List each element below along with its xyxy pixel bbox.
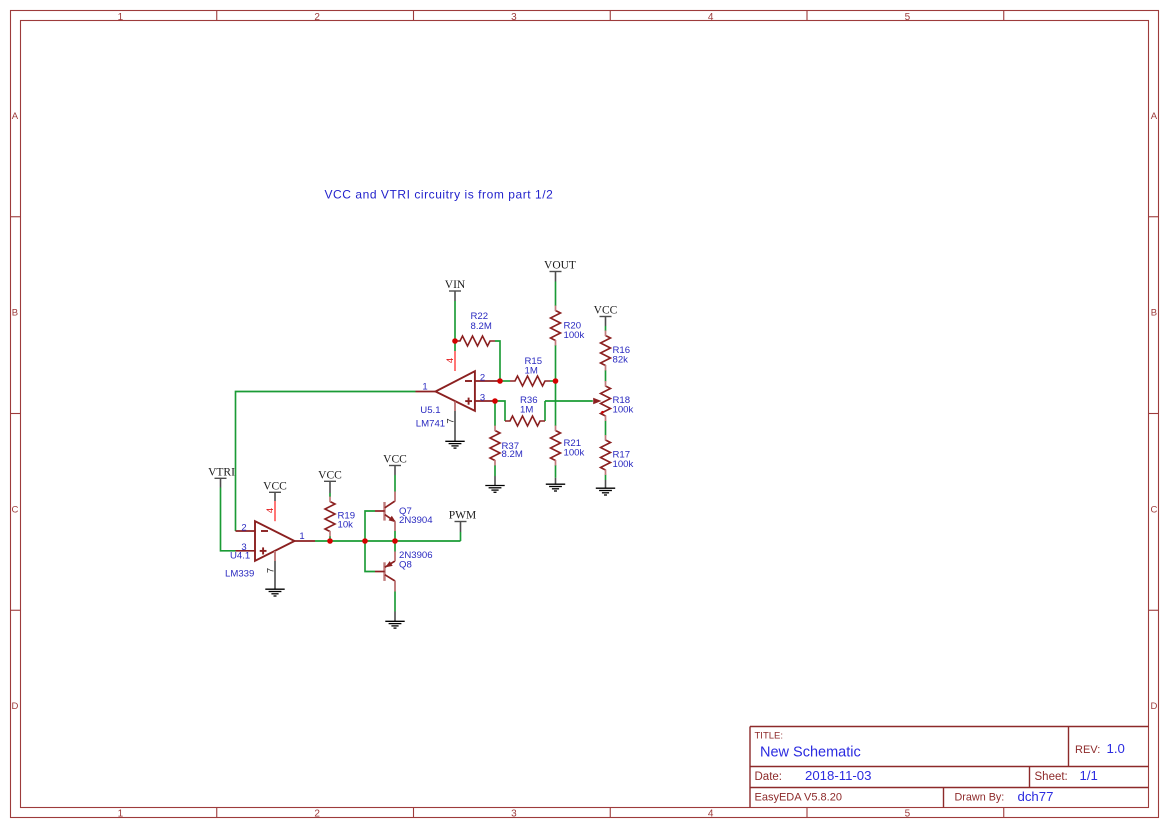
wire VCC to Q7 collector (394, 475, 396, 492)
svg-text:3: 3 (511, 809, 517, 820)
svg-text:82k: 82k (613, 355, 629, 366)
U5.1 pin 4 (454, 351, 456, 371)
junction (VIN/R22) (452, 338, 458, 344)
svg-text:B: B (12, 308, 18, 319)
ground (U5.1 pin7) (454, 411, 456, 441)
svg-text:2N3904: 2N3904 (399, 515, 433, 526)
svg-text:8.2M: 8.2M (502, 449, 523, 460)
junction (Q7/Q8/PWM) (392, 538, 398, 544)
wire Q7 emitter to node (394, 531, 396, 541)
svg-text:1: 1 (118, 809, 124, 820)
resistor R37 8.2M (490, 431, 500, 461)
svg-text:7: 7 (446, 418, 457, 423)
svg-text:VTRI: VTRI (208, 466, 235, 478)
svg-text:REV:: REV: (1075, 744, 1100, 756)
resistor R36 1M (505, 416, 545, 426)
resistor R19 10k (325, 502, 335, 532)
wire VIN to R22/pin4 (454, 301, 456, 351)
svg-text:VCC: VCC (263, 480, 287, 492)
svg-text:5: 5 (905, 12, 911, 23)
svg-text:LM741: LM741 (416, 419, 445, 430)
svg-text:100k: 100k (613, 459, 634, 470)
resistor R20 100k (551, 311, 561, 341)
svg-text:4: 4 (708, 809, 714, 820)
op-amp U4.1 LM339 (255, 521, 295, 561)
wire R16 to R18 (605, 370, 607, 382)
svg-text:VCC: VCC (318, 469, 342, 481)
junction (pin2/R15) (497, 378, 503, 384)
svg-text:8.2M: 8.2M (471, 321, 492, 332)
svg-text:EasyEDA V5.8.20: EasyEDA V5.8.20 (755, 791, 842, 803)
U4.1 pin 7 (274, 551, 276, 561)
svg-text:2: 2 (314, 809, 320, 820)
wire U5.1 output to U4.1 pin2 (236, 392, 416, 532)
svg-text:4: 4 (708, 12, 714, 23)
svg-text:New Schematic: New Schematic (760, 744, 861, 760)
svg-text:LM339: LM339 (225, 569, 254, 580)
svg-text:4: 4 (445, 358, 456, 363)
resistor R22 8.2M (455, 336, 495, 346)
svg-text:U5.1: U5.1 (420, 405, 440, 416)
U4.1 pin 3 (236, 550, 256, 552)
svg-text:2: 2 (241, 522, 246, 533)
svg-text:1M: 1M (520, 405, 533, 416)
U5.1 pin 7 (454, 402, 456, 412)
svg-text:VIN: VIN (445, 279, 466, 291)
resistor R15 1M (510, 376, 550, 386)
svg-text:VCC: VCC (594, 305, 618, 317)
transistor Q7 2N3904 (383, 502, 385, 521)
resistor R21 100k (551, 431, 561, 461)
wire VCC to R16 (605, 326, 607, 331)
resistor R17 100k (601, 440, 611, 470)
wire pin3 to R37 (494, 401, 496, 426)
U4.1 pin 2 (236, 530, 256, 532)
svg-text:U4.1: U4.1 (230, 551, 250, 562)
resistor R16 82k (601, 336, 611, 366)
svg-text:B: B (1151, 308, 1157, 319)
title block (750, 726, 1149, 728)
svg-text:VCC: VCC (383, 454, 407, 466)
svg-text:Date:: Date: (755, 771, 783, 783)
wire base rail (365, 511, 375, 572)
svg-text:Drawn By:: Drawn By: (955, 791, 1005, 803)
U4.1 pin 1 (295, 540, 316, 542)
wire VOUT mid (555, 345, 557, 426)
svg-text:3: 3 (511, 12, 517, 23)
ground (R37) (494, 476, 496, 485)
wire VOUT down (555, 282, 557, 307)
wire R15 to VOUT net (550, 380, 556, 382)
wire R17 to ground (605, 475, 607, 481)
wire R37 to ground (494, 465, 496, 476)
svg-text:1: 1 (299, 531, 304, 542)
svg-text:PWM: PWM (449, 510, 476, 522)
svg-text:1: 1 (118, 12, 124, 23)
svg-text:3: 3 (480, 392, 485, 403)
wire pin3 to R36 (495, 401, 505, 421)
svg-text:VOUT: VOUT (544, 260, 576, 272)
U4.1 pin 4 (274, 501, 276, 521)
svg-text:Sheet:: Sheet: (1035, 771, 1068, 783)
svg-text:C: C (1150, 504, 1157, 515)
svg-text:100k: 100k (613, 405, 634, 416)
wire PWM riser (460, 532, 462, 541)
svg-text:TITLE:: TITLE: (755, 731, 784, 742)
ground (R21) (555, 478, 557, 484)
ground (U4.1 pin7) (274, 561, 276, 589)
wire R18 to R17 (605, 421, 607, 436)
svg-text:10k: 10k (338, 520, 354, 531)
svg-text:100k: 100k (564, 330, 585, 341)
svg-text:D: D (1150, 701, 1157, 712)
transistor Q8 2N3906 (383, 562, 385, 581)
svg-text:2: 2 (480, 372, 485, 383)
svg-text:2: 2 (314, 12, 320, 23)
wire to R18 wiper (545, 400, 593, 402)
junction (R19/output) (327, 538, 333, 544)
svg-text:1M: 1M (525, 366, 538, 377)
ground (R17) (605, 480, 607, 488)
U5.1 pin 3 (475, 400, 495, 402)
svg-text:2018-11-03: 2018-11-03 (805, 768, 871, 783)
svg-text:A: A (12, 111, 19, 122)
svg-text:4: 4 (265, 508, 276, 513)
wire R21 to ground (555, 465, 557, 478)
junction (pin3) (492, 398, 498, 404)
svg-text:C: C (11, 504, 18, 515)
svg-text:VCC and VTRI circuitry is from: VCC and VTRI circuitry is from part 1/2 (325, 188, 554, 202)
svg-text:5: 5 (905, 809, 911, 820)
U5.1 pin 2 (475, 380, 500, 382)
wire VTRI to pin3 (221, 488, 236, 551)
svg-text:D: D (11, 701, 18, 712)
ground (Q8) (394, 612, 396, 622)
svg-text:1: 1 (422, 382, 427, 393)
svg-text:A: A (1151, 111, 1158, 122)
wire R36 up (544, 401, 546, 421)
svg-text:100k: 100k (564, 448, 585, 459)
svg-text:7: 7 (266, 568, 277, 573)
wire pin2 to R15 (500, 380, 510, 382)
junction (R15/VOUT) (553, 378, 559, 384)
wire Q8 collector to ground (394, 592, 396, 612)
wire U4.1 output to PWM (315, 540, 461, 542)
wire node to Q8 emitter (394, 541, 396, 552)
junction (base rail) (362, 538, 368, 544)
wire R19 top (329, 493, 331, 497)
op-amp U5.1 LM741 (436, 371, 475, 411)
svg-text:Q8: Q8 (399, 559, 412, 570)
potentiometer R18 100k (601, 386, 611, 416)
U5.1 pin 1 (416, 391, 436, 393)
svg-text:1/1: 1/1 (1080, 768, 1098, 783)
svg-text:1.0: 1.0 (1107, 741, 1125, 756)
wire R22 to pin2 (495, 341, 500, 381)
svg-text:dch77: dch77 (1018, 789, 1054, 804)
